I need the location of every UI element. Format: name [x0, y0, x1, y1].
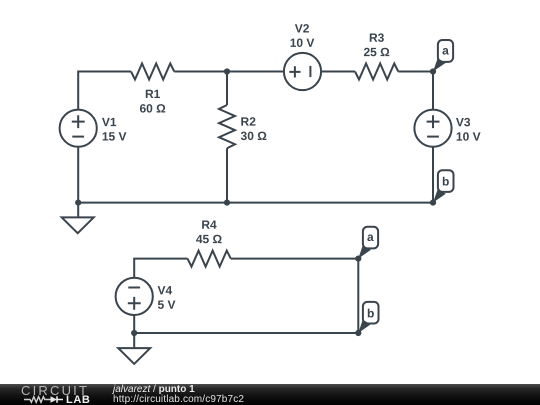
svg-text:45 Ω: 45 Ω [196, 232, 223, 246]
wire: V1 top lead up and right to R1 [78, 72, 131, 110]
junction dot node b (top) [430, 200, 436, 206]
wire: V2 right terminal to R3 [321, 71, 355, 73]
svg-text:10 V: 10 V [290, 36, 315, 50]
V4 minus sign [128, 287, 140, 289]
V1 minus sign [72, 136, 84, 138]
svg-text:a: a [367, 230, 374, 244]
wire: R3 to node a [398, 71, 433, 73]
logo diode bar and lead [57, 396, 63, 403]
junction dot node a (top) [430, 68, 436, 74]
wire: node a down to V3 top [432, 72, 434, 110]
svg-text:15 V: 15 V [102, 130, 127, 144]
node flag a (top) box [438, 40, 453, 62]
svg-text:5 V: 5 V [157, 298, 175, 312]
junction dot at R2 bottom [224, 200, 230, 206]
svg-text:V1: V1 [102, 115, 117, 129]
node flag b (bottom) box [363, 302, 379, 324]
junction dot at R1/R2 top [224, 68, 230, 74]
svg-text:R1: R1 [145, 87, 161, 101]
junction dot node a (bottom) [355, 256, 361, 262]
resistor R3 [355, 64, 398, 80]
svg-text:V4: V4 [157, 283, 172, 297]
CircuitLab logo [0, 384, 110, 405]
svg-text:R2: R2 [241, 115, 257, 129]
ground symbol 2 triangle [118, 348, 150, 364]
voltage source V4 (circle) [116, 278, 153, 315]
voltage source V3 (circle) [414, 110, 451, 147]
node flag b (top) tail [433, 189, 446, 202]
ground symbol 2 stem [133, 333, 135, 348]
wire: R1 to V2 left terminal [174, 71, 284, 73]
wire: R2 top lead from junction [226, 72, 228, 106]
node flag a (bottom) tail [358, 245, 371, 258]
logo diode symbol [51, 396, 58, 403]
voltage source V2 (circle) [284, 53, 321, 90]
svg-text:30 Ω: 30 Ω [241, 129, 268, 143]
wire: R4 to lower node a [231, 258, 359, 260]
junction dot at V1 ground [75, 200, 81, 206]
V1 plus sign [72, 115, 85, 128]
junction dot at V4 ground [131, 330, 137, 336]
node flag b (top) box [438, 170, 454, 192]
wire: V1 bottom lead [77, 147, 79, 203]
svg-text:R3: R3 [369, 31, 385, 45]
wire: R2 bottom lead [226, 148, 228, 202]
resistor R1 [131, 64, 174, 80]
svg-text:LAB: LAB [66, 394, 90, 405]
wire: V4 bottom lead [133, 315, 135, 333]
svg-text:b: b [367, 306, 374, 320]
svg-text:b: b [442, 174, 449, 188]
wire: bottom rail of top circuit [78, 202, 433, 204]
ground symbol 1 stem [77, 203, 79, 218]
footer title and url [112, 383, 114, 385]
svg-text:60 Ω: 60 Ω [139, 101, 166, 115]
resistor R2 [219, 105, 235, 148]
V2 plus sign [289, 66, 300, 77]
V3 plus sign [427, 115, 440, 128]
node flag a (top) tail [433, 58, 446, 71]
V3 minus sign [427, 136, 439, 138]
node flag b (bottom) tail [358, 320, 371, 333]
wire: lower node a down to lower node b [357, 259, 359, 333]
logo wire with resistor [24, 397, 51, 403]
wire: V3 bottom to node b [432, 147, 434, 203]
svg-text:25 Ω: 25 Ω [363, 45, 390, 59]
svg-text:V3: V3 [456, 115, 471, 129]
V2 minus bar [309, 66, 311, 77]
svg-text:a: a [442, 43, 449, 57]
voltage source V1 (circle) [60, 110, 97, 147]
V4 plus sign [128, 297, 141, 310]
svg-text:10 V: 10 V [456, 130, 481, 144]
svg-text:V2: V2 [295, 22, 310, 36]
wire: V4 top lead up and right to R4 [134, 259, 187, 278]
node flag a (bottom) box [363, 227, 378, 249]
footer bar [0, 384, 540, 405]
resistor R4 [188, 251, 231, 267]
junction dot node b (bottom) [355, 330, 361, 336]
svg-text:R4: R4 [201, 218, 217, 232]
wire: bottom rail of lower circuit [134, 332, 358, 334]
ground symbol 1 triangle [62, 217, 94, 233]
